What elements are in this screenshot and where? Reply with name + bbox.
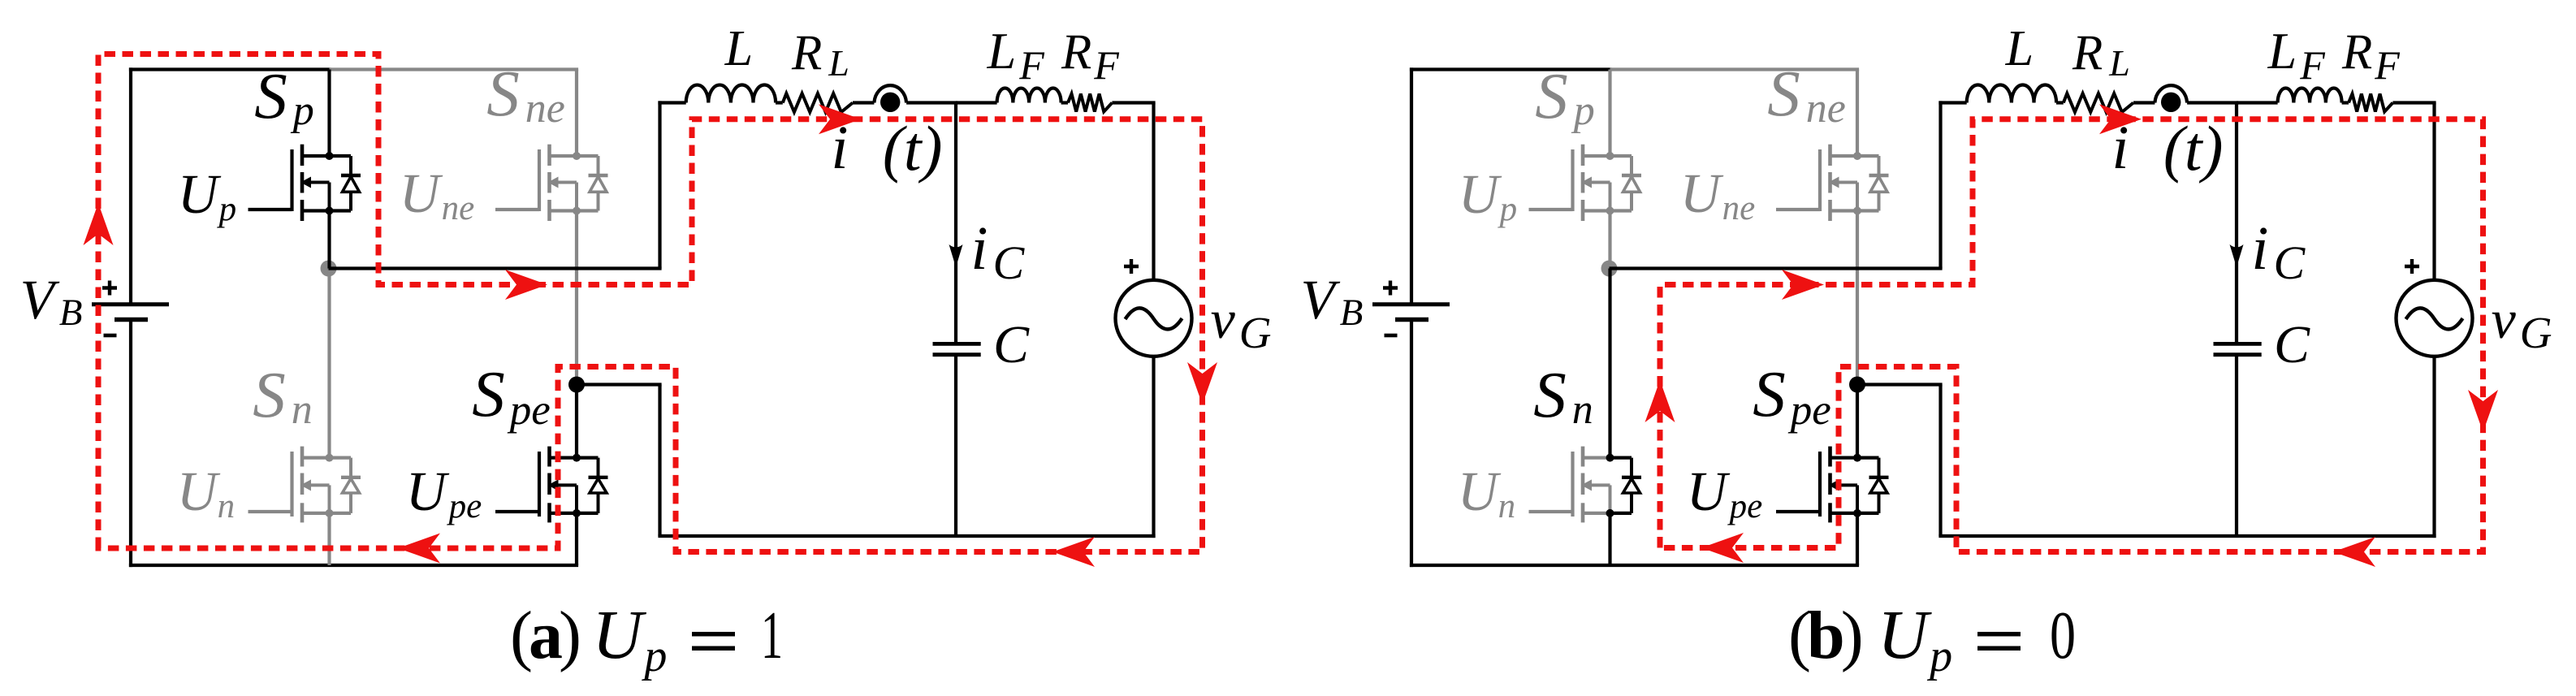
label R_L (b) [2072, 26, 2130, 84]
wire Sp source to phase node (a) [327, 211, 331, 270]
wire Spe source to bottom rail (a) [575, 513, 578, 565]
resistor R_L (a) [783, 93, 853, 112]
svg-text:L: L [724, 21, 753, 76]
source plus mark (b) [2405, 259, 2419, 274]
caption (a) U_p = 1 [510, 595, 783, 681]
red arrow left bottom-right path (a) [1052, 537, 1095, 567]
label U_p gate signal (a) [178, 163, 236, 228]
label C (a) [993, 315, 1030, 374]
wire R_L to current probe (b) [2133, 101, 2155, 104]
svg-text:(t): (t) [2163, 113, 2224, 184]
svg-text:(t): (t) [883, 113, 943, 184]
capacitor C (b) [2214, 344, 2262, 354]
label i (t) (a) [831, 113, 942, 184]
wire L_F to R_F (a) [1061, 101, 1068, 104]
wire Sn source to bottom rail (b) [1608, 513, 1611, 565]
caption (b) U_p = 0 [1788, 595, 2076, 681]
wire L to R_L (b) [2056, 101, 2064, 104]
wire capacitor upper lead (b) [2235, 103, 2238, 343]
battery V_B (b) [1372, 67, 1450, 567]
transistor Q S_p (a) [249, 145, 361, 221]
wire C branch top (b) [2237, 101, 2278, 104]
transistor Q S_n (a) [249, 447, 361, 523]
wire probe to C branch (a) [906, 101, 957, 104]
wire Sp drain leg (a) [327, 70, 331, 157]
label S_p (b) [1535, 59, 1595, 134]
label S_p (a) [254, 59, 314, 134]
label L_F (a) [987, 22, 1045, 88]
svg-text:C: C [2274, 315, 2310, 374]
wire capacitor upper lead (a) [954, 103, 957, 343]
current arrow i_C (b) [2230, 244, 2244, 267]
ac source v_G (a) [1116, 280, 1192, 357]
label U_n gate signal (b) [1458, 460, 1515, 525]
resistor R_F (b) [2349, 94, 2392, 112]
battery plus terminal (b) [1383, 281, 1398, 296]
svg-text:0: 0 [2050, 598, 2076, 673]
label S_n (a) [253, 358, 313, 433]
wire L_F to R_F (b) [2342, 101, 2349, 104]
label S_ne (a) [486, 57, 565, 132]
label L_F (b) [2267, 22, 2326, 88]
transistor Q S_ne (b) [1776, 145, 1889, 221]
inductor L (a) [686, 85, 776, 103]
battery plus terminal (a) [102, 281, 117, 296]
label U_ne gate signal (b) [1680, 162, 1755, 227]
red arrow up battery branch (a) [84, 203, 114, 245]
label U_p gate signal (b) [1459, 163, 1517, 228]
label L (b) [2005, 21, 2034, 76]
inductor L_F (b) [2278, 89, 2342, 103]
label i_C (b) [2251, 214, 2306, 289]
label V_B (a) [20, 269, 83, 334]
node phase (output of leg p) (a) [321, 261, 337, 277]
wire Spe node to Spe drain (b) [1856, 385, 1859, 458]
wire capacitor lower lead (a) [954, 357, 957, 536]
red arrow right inductor path (a) [819, 104, 861, 134]
transistor Q S_n channel symbol (b) [1529, 447, 1642, 523]
wire v_G upper lead (a) [1152, 103, 1155, 281]
red arrow left bottom-left path (b) [1701, 533, 1744, 563]
label R_L (a) [791, 26, 849, 84]
current probe node i(t) (a) [874, 85, 906, 112]
wire R_F to source branch (a) [1112, 101, 1155, 104]
svg-text:1: 1 [761, 598, 783, 673]
svg-text:(b): (b) [1788, 598, 1861, 673]
svg-text:L: L [2005, 21, 2034, 76]
red dashed current path loop (b) [1660, 119, 2483, 552]
red arrow left bottom-right path (b) [2333, 537, 2375, 567]
transistor Q S_pe (b) [1776, 447, 1889, 523]
label V_B (b) [1301, 269, 1364, 334]
wire Spe source to bottom rail (b) [1856, 513, 1859, 565]
label U_n gate signal (a) [177, 460, 235, 525]
source plus mark (a) [1124, 259, 1139, 274]
wire top rail battery to Sp drain (b) [1410, 67, 1612, 71]
transistor Q S_ne (a) [495, 145, 608, 221]
label S_ne (b) [1767, 57, 1846, 132]
transistor Q S_p (b) [1529, 145, 1642, 221]
wire capacitor lower lead (b) [2235, 357, 2238, 536]
wire probe to C branch (b) [2187, 101, 2238, 104]
label R_F (a) [1061, 25, 1119, 88]
wire C branch top (a) [956, 101, 997, 104]
ac source v_G (b) [2397, 280, 2473, 357]
node Spe drain junction (b) [1849, 377, 1865, 393]
wire top rail Sp to Sne drain (a) [330, 67, 579, 71]
label U_ne gate signal (a) [400, 162, 474, 227]
resistor R_F (a) [1068, 94, 1112, 112]
wire Sne source to Spe node (a) [575, 211, 578, 385]
label S_pe (a) [472, 357, 551, 434]
wire Sp source to phase node (b) [1608, 211, 1611, 270]
node Spe drain junction (a) [568, 377, 585, 393]
wire Spe node to Spe drain (a) [575, 385, 578, 458]
resistor R_L (b) [2064, 93, 2133, 112]
wire v_G lower lead (a) [1152, 356, 1155, 538]
red dashed current path loop (a) [98, 54, 1203, 552]
svg-text:(a): (a) [510, 598, 579, 673]
label L (a) [724, 21, 753, 76]
wire Sne drain leg (a) [575, 70, 578, 157]
red arrow right phase path (b) [1782, 270, 1824, 300]
wire L to R_L (a) [776, 101, 783, 104]
current arrow i_C (a) [949, 244, 963, 267]
wire phase node to L branch (a) [329, 101, 686, 268]
red arrow up Sn branch (b) [1645, 380, 1675, 422]
capacitor C (a) [933, 344, 981, 354]
red arrow down v_G path (b) [2468, 390, 2498, 432]
node phase (output of leg p) (b) [1601, 261, 1618, 277]
wire v_G upper lead (b) [2432, 103, 2436, 281]
label C (b) [2274, 315, 2310, 374]
wire Sne drain leg (b) [1856, 70, 1859, 157]
battery V_B (a) [92, 67, 169, 567]
wire bottom rail battery to Spe source (a) [129, 564, 578, 567]
wire v_G lower lead (b) [2432, 356, 2436, 538]
label U_pe gate signal (a) [406, 460, 482, 525]
wire Sn source to bottom rail (a) [327, 513, 331, 565]
wire phase node to L branch (b) [1610, 101, 1967, 268]
red arrow left bottom-left path (a) [398, 534, 440, 564]
label v_G (b) [2492, 288, 2552, 357]
label R_F (b) [2341, 25, 2400, 88]
wire Spe node to bottom-right rail (a) [577, 385, 1156, 537]
red arrow down v_G path (a) [1187, 362, 1217, 404]
label S_n (b) [1533, 358, 1593, 433]
wire top rail battery to Sp drain (a) [129, 67, 331, 71]
inductor L (b) [1967, 84, 2056, 102]
label i_C (a) [970, 214, 1025, 289]
red arrow right phase path (a) [505, 270, 547, 300]
label v_G (a) [1211, 288, 1272, 357]
wire phase node to Sn drain (b) [1608, 269, 1611, 458]
red arrow right inductor path (b) [2099, 104, 2142, 134]
wire bottom rail battery to Spe source (b) [1410, 564, 1859, 567]
label i (t) (b) [2111, 113, 2223, 184]
wire Sp drain leg (b) [1608, 70, 1611, 157]
wire Spe node to bottom-right rail (b) [1857, 385, 2436, 537]
wire phase node to Sn drain (a) [327, 269, 331, 458]
current probe node i(t) (b) [2155, 85, 2187, 112]
wire Sne source to Spe node (b) [1856, 211, 1859, 385]
svg-text:C: C [993, 315, 1030, 374]
wire top rail Sp to Sne drain (b) [1610, 67, 1860, 71]
inductor L_F (a) [997, 89, 1061, 103]
transistor Q S_pe (a) [495, 447, 608, 523]
wire R_F to source branch (b) [2392, 101, 2436, 104]
battery minus terminal (a) [104, 334, 117, 338]
wire R_L to current probe (a) [853, 101, 874, 104]
label U_pe gate signal (b) [1687, 460, 1762, 525]
label S_pe (b) [1753, 357, 1831, 434]
battery minus terminal (b) [1385, 334, 1398, 338]
